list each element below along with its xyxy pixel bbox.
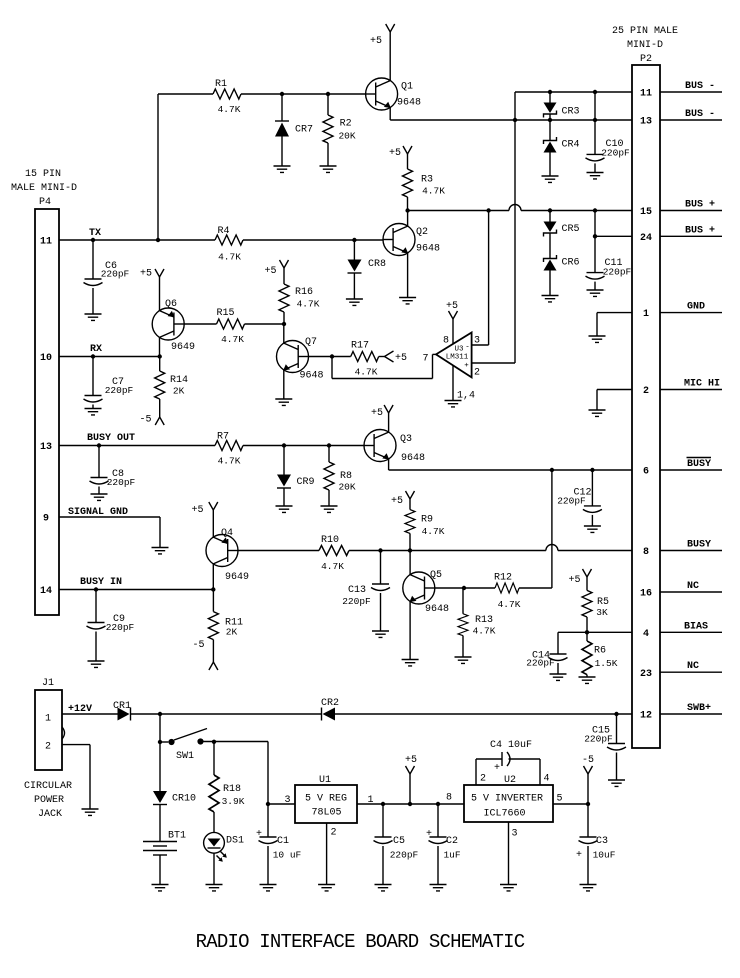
ground (Q2) (399, 298, 416, 304)
resistor R10 (319, 535, 349, 572)
svg-text:R15: R15 (216, 308, 234, 319)
ground (CR7) (274, 166, 291, 172)
ground (Q5) (402, 660, 419, 666)
svg-text:4: 4 (643, 629, 649, 640)
svg-text:4.7K: 4.7K (297, 299, 320, 310)
svg-text:R1: R1 (215, 79, 227, 90)
inverter U2 ICL7660 (446, 774, 563, 840)
svg-text:P2: P2 (640, 54, 652, 65)
ground (C3) (580, 885, 597, 891)
capacitor C12 (557, 470, 602, 526)
capacitor C7 (84, 357, 134, 409)
svg-text:+5: +5 (391, 496, 403, 507)
transistor Q1 9648 (366, 78, 421, 110)
wire Q5 emitter to ground (409, 601, 411, 659)
capacitor C10 (586, 92, 631, 173)
svg-text:CR8: CR8 (368, 259, 386, 270)
op-amp U3 LM311 (422, 333, 480, 402)
J1 pin2 wire (62, 744, 90, 746)
svg-text:3: 3 (511, 829, 517, 840)
svg-text:RX: RX (90, 344, 102, 355)
svg-text:9648: 9648 (397, 98, 421, 109)
capacitor C14 (526, 632, 567, 674)
svg-text:ICL7660: ICL7660 (483, 809, 525, 820)
ground (C13) (372, 631, 389, 637)
svg-text:R9: R9 (421, 515, 433, 526)
capacitor C15 (584, 714, 626, 780)
svg-text:1: 1 (45, 714, 51, 725)
power +5 (R17 right chevron) (385, 351, 408, 364)
svg-text:R4: R4 (217, 226, 229, 237)
svg-text:LM311: LM311 (446, 354, 469, 362)
ground (C12) (584, 526, 601, 532)
svg-text:-5: -5 (582, 755, 594, 766)
resistor R13 (458, 588, 496, 657)
svg-text:GND: GND (687, 302, 705, 313)
svg-text:C1: C1 (277, 836, 289, 847)
svg-text:10 uF: 10 uF (273, 850, 302, 861)
wire pin24 row (595, 235, 632, 237)
svg-text:R18: R18 (223, 784, 241, 795)
svg-text:+5: +5 (191, 505, 203, 516)
power +5 (R16) (264, 260, 288, 284)
svg-text:C4 10uF: C4 10uF (490, 740, 532, 751)
diode CR10 (153, 742, 196, 805)
svg-text:8: 8 (443, 336, 449, 347)
svg-text:JACK: JACK (38, 809, 62, 820)
diode CR3 (544, 92, 580, 118)
connector P4 15-pin male mini-D (11, 169, 77, 615)
wire Q2 collector (407, 211, 409, 227)
svg-text:220pF: 220pF (603, 267, 632, 278)
connector J1 circular power jack (24, 678, 72, 820)
ground (R6) (579, 677, 596, 683)
wire CR2 to P2 pin12 (335, 713, 632, 715)
diode CR1 (113, 701, 131, 721)
ground (U1 pin2) (318, 885, 335, 891)
transistor Q2 9648 (383, 224, 440, 256)
wire BUSY OUT row (59, 445, 215, 447)
resistor R6 (582, 632, 618, 677)
wire Q6 collector to RX node (159, 337, 161, 356)
diode CR4 (544, 114, 580, 176)
power +5 (R3) (389, 146, 412, 169)
svg-text:+5: +5 (395, 353, 407, 364)
capacitor C4 (476, 740, 540, 785)
svg-text:Q4: Q4 (221, 528, 233, 539)
svg-text:POWER: POWER (34, 795, 64, 806)
svg-text:4.7K: 4.7K (422, 526, 445, 537)
node R2 tap (326, 92, 330, 96)
node CR7 tap (280, 92, 284, 96)
wire U3 output to Q7 base (331, 357, 333, 379)
ground (BT1) (152, 885, 169, 891)
svg-text:+5: +5 (264, 266, 276, 277)
wire R10 to P2 pin8 with hop (349, 550, 546, 552)
svg-text:R10: R10 (321, 535, 339, 546)
svg-text:9649: 9649 (225, 572, 249, 583)
svg-text:3K: 3K (596, 607, 608, 618)
svg-text:4.7K: 4.7K (221, 334, 244, 345)
ground (C6) (85, 314, 102, 320)
svg-text:78L05: 78L05 (311, 808, 341, 819)
ground (C14) (550, 674, 567, 680)
svg-text:MINI-D: MINI-D (627, 40, 663, 51)
svg-text:5 V INVERTER: 5 V INVERTER (471, 794, 543, 805)
transistor Q4 9649 (206, 528, 249, 583)
svg-text:R17: R17 (351, 341, 369, 352)
ground (R2) (320, 166, 337, 172)
wire U2 pin5 (553, 803, 588, 805)
svg-text:15 PIN: 15 PIN (25, 169, 61, 180)
capacitor C1 (256, 802, 302, 885)
svg-text:BUS -: BUS - (685, 81, 715, 92)
svg-text:+: + (576, 850, 582, 861)
diode CR9 (277, 446, 315, 507)
P2 pin 2 (643, 379, 722, 398)
resistor R2 (323, 94, 356, 166)
resistor R14 (155, 357, 188, 418)
ground (C5) (375, 885, 392, 891)
wire Q3 emitter to P2 pin6 (388, 459, 390, 470)
svg-text:BUS +: BUS + (685, 200, 715, 211)
wire U3 gnd pins 1,4 (452, 366, 454, 401)
power +5 (Q1) (370, 24, 395, 81)
svg-text:10uF: 10uF (593, 850, 616, 861)
wire TX-to-R1 left rail (157, 94, 159, 240)
resistor R3 (403, 169, 446, 211)
svg-text:P4: P4 (39, 197, 51, 208)
svg-text:BUS -: BUS - (685, 109, 715, 120)
diode CR6 (544, 233, 580, 296)
capacitor C13 (342, 551, 390, 632)
svg-text:CR4: CR4 (561, 140, 579, 151)
wire Q5 collector (409, 551, 411, 575)
P2 pin 8 (643, 540, 722, 559)
power -5 (U2 out) (582, 755, 594, 804)
svg-text:4: 4 (543, 774, 549, 785)
svg-text:Q5: Q5 (430, 570, 442, 581)
transistor Q5 9648 (403, 570, 449, 615)
ground (DS1) (206, 885, 223, 891)
svg-text:CIRCULAR: CIRCULAR (24, 781, 72, 792)
svg-text:SW1: SW1 (176, 751, 194, 762)
svg-text:CR9: CR9 (296, 477, 314, 488)
svg-text:9649: 9649 (171, 342, 195, 353)
svg-text:4.7K: 4.7K (355, 367, 378, 378)
svg-text:4.7K: 4.7K (473, 626, 496, 637)
wire U3 pin3 to BUS+ (472, 344, 489, 346)
power +5 (U1 out) (405, 755, 417, 804)
node Q7 base (330, 354, 334, 358)
wire R12 to BUSY-bar vertical (519, 587, 552, 589)
regulator U1 78L05 (284, 775, 373, 839)
capacitor C3 (576, 804, 616, 885)
svg-text:+5: +5 (370, 36, 382, 47)
diode CR2 (321, 698, 339, 721)
wire U3 pin2 (472, 362, 515, 364)
svg-text:16: 16 (640, 589, 652, 600)
P2 pin 12 (640, 703, 722, 722)
svg-text:7: 7 (422, 354, 428, 365)
wire Q5 base row (435, 587, 495, 589)
svg-text:220pF: 220pF (526, 658, 555, 669)
resistor R16 (279, 284, 320, 324)
svg-text:+5: +5 (140, 269, 152, 280)
svg-text:6: 6 (643, 467, 649, 478)
svg-text:R8: R8 (340, 471, 352, 482)
wire CR1 to CR2 (131, 713, 322, 715)
svg-text:+: + (256, 829, 262, 840)
svg-text:24: 24 (640, 233, 652, 244)
svg-text:2K: 2K (173, 386, 185, 397)
resistor R9 (405, 510, 445, 551)
node main vertical at pin13 row (513, 118, 517, 122)
svg-text:Q2: Q2 (416, 227, 428, 238)
capacitor C9 (87, 590, 135, 662)
ground (CR3/CR4) (542, 176, 559, 182)
svg-text:CR5: CR5 (561, 224, 579, 235)
svg-text:8: 8 (643, 547, 649, 558)
svg-text:1uF: 1uF (443, 850, 460, 861)
svg-text:DS1: DS1 (226, 836, 244, 847)
wire Q7 collector (283, 324, 285, 343)
capacitor C6 (84, 240, 130, 314)
P2 pin 4 (643, 621, 722, 640)
svg-text:U3: U3 (454, 346, 464, 354)
svg-text:13: 13 (640, 117, 652, 128)
svg-text:220pF: 220pF (105, 385, 134, 396)
capacitor C2 (426, 804, 461, 885)
LED DS1 (204, 832, 244, 884)
svg-text:+: + (464, 362, 469, 370)
svg-text:220pF: 220pF (601, 147, 630, 158)
svg-text:NC: NC (687, 581, 699, 592)
svg-text:2: 2 (45, 742, 51, 753)
svg-text:R6: R6 (594, 646, 606, 657)
ground (C15) (608, 780, 625, 786)
svg-text:+: + (494, 763, 500, 774)
svg-text:BUSY: BUSY (687, 540, 711, 551)
svg-text:1: 1 (643, 309, 649, 320)
wire BUS+ row with hop (408, 210, 509, 212)
P2 pin 1 (643, 302, 722, 320)
svg-text:+5: +5 (389, 148, 401, 159)
svg-text:13: 13 (40, 442, 52, 453)
resistor R8 (324, 446, 356, 507)
diode CR7 (275, 94, 313, 166)
resistor R12 (494, 573, 521, 611)
wire U2 pin3 to ground (508, 822, 510, 885)
wire U1 pin2 to ground (326, 823, 328, 885)
svg-text:+5: +5 (405, 755, 417, 766)
svg-text:TX: TX (89, 228, 101, 239)
svg-text:9648: 9648 (416, 244, 440, 255)
transistor Q6 9649 (152, 299, 195, 353)
svg-text:Q7: Q7 (305, 337, 317, 348)
svg-text:J1: J1 (42, 678, 54, 689)
transistor Q7 9648 (277, 337, 324, 382)
power -5 (R11) (192, 640, 217, 670)
svg-text:-5: -5 (192, 640, 204, 651)
svg-text:2: 2 (643, 386, 649, 397)
svg-text:5 V REG: 5 V REG (305, 794, 347, 805)
svg-text:R2: R2 (340, 119, 352, 130)
svg-text:220pF: 220pF (106, 622, 135, 633)
diode CR5 (544, 211, 580, 237)
svg-text:+5: +5 (568, 575, 580, 586)
svg-text:Q3: Q3 (400, 434, 412, 445)
switch SW1 (158, 714, 207, 762)
svg-text:220pF: 220pF (557, 496, 586, 507)
connector P2 25-pin male mini-D (612, 26, 678, 748)
transistor Q3 9648 (364, 430, 425, 465)
ground (CR9) (276, 506, 293, 512)
resistor R15 (184, 308, 284, 345)
power +5 (R5) (568, 569, 591, 590)
svg-text:25 PIN MALE: 25 PIN MALE (612, 26, 678, 37)
power +5 (Q4) (191, 502, 217, 537)
ground (Q7) (275, 399, 292, 405)
svg-text:R16: R16 (295, 287, 313, 298)
svg-text:U1: U1 (319, 775, 331, 786)
svg-text:220pF: 220pF (342, 596, 371, 607)
wire TX row (59, 239, 215, 241)
resistor R4 (215, 226, 243, 263)
P2 pin 6 BUSY-bar (643, 458, 722, 478)
svg-text:9648: 9648 (299, 371, 323, 382)
svg-text:20K: 20K (338, 482, 355, 493)
svg-text:23: 23 (640, 669, 652, 680)
svg-text:220pF: 220pF (390, 850, 419, 861)
svg-text:2K: 2K (226, 627, 238, 638)
svg-text:C2: C2 (446, 836, 458, 847)
battery BT1 (143, 805, 186, 885)
svg-text:BUS +: BUS + (685, 225, 715, 236)
resistor R11 (208, 590, 243, 663)
wire +12V row J1 to CR1 (62, 713, 118, 715)
ground (signal gnd) (152, 548, 169, 554)
power +5 (Q6) (140, 269, 164, 311)
svg-text:+: + (426, 829, 432, 840)
svg-text:BUSY IN: BUSY IN (80, 577, 122, 588)
svg-text:Q6: Q6 (165, 299, 177, 310)
resistor R18 (209, 742, 245, 833)
svg-text:CR3: CR3 (561, 107, 579, 118)
svg-text:20K: 20K (338, 131, 355, 142)
ground (C11) (587, 290, 604, 296)
svg-text:MIC HI: MIC HI (684, 379, 720, 390)
wire R1-to-Q1 base (241, 93, 366, 95)
wire BIAS row (558, 631, 632, 633)
ground (CR5/CR6) (542, 296, 559, 302)
svg-text:CR2: CR2 (321, 698, 339, 709)
svg-text:+5: +5 (446, 301, 458, 312)
P2 pin 23 (640, 661, 722, 680)
svg-text:C13: C13 (348, 585, 366, 596)
svg-text:220pF: 220pF (584, 734, 613, 745)
svg-text:BT1: BT1 (168, 831, 186, 842)
svg-text:R13: R13 (475, 615, 493, 626)
svg-text:CR1: CR1 (113, 701, 131, 712)
node R15/R16/Q7 (282, 322, 286, 326)
svg-text:Q1: Q1 (401, 82, 413, 93)
svg-text:11: 11 (640, 89, 652, 100)
svg-text:-5: -5 (139, 415, 151, 426)
svg-text:RADIO INTERFACE BOARD SCHEMATI: RADIO INTERFACE BOARD SCHEMATIC (196, 931, 525, 953)
ground (C1) (260, 885, 277, 891)
capacitor C11 (586, 211, 632, 291)
P2 pin 11 (640, 81, 722, 100)
svg-text:2: 2 (330, 828, 336, 839)
resistor R5 (582, 590, 609, 632)
svg-text:2: 2 (474, 368, 480, 379)
svg-text:14: 14 (40, 586, 52, 597)
svg-text:4.7K: 4.7K (422, 186, 445, 197)
ground (C10) (587, 173, 604, 179)
wire R4 to Q2 base (243, 239, 383, 241)
power +5 (Q3) (371, 405, 393, 432)
svg-text:C3: C3 (596, 836, 608, 847)
wire Q1 emitter to P2 pin13 (389, 107, 391, 120)
wire P2 pin2 to ground (597, 389, 632, 391)
svg-text:220pF: 220pF (107, 477, 136, 488)
ground (U2 pin3) (500, 885, 517, 891)
svg-text:1.5K: 1.5K (595, 658, 618, 669)
wire main vertical to U3 pin2 (514, 120, 516, 363)
svg-text:U2: U2 (504, 775, 516, 786)
ground (CR8) (346, 299, 363, 305)
P2 pin 16 (640, 581, 722, 600)
wire Q7 emitter to ground (283, 370, 285, 399)
P2 pin 13 (640, 109, 722, 128)
svg-text:C5: C5 (393, 836, 405, 847)
svg-text:8: 8 (446, 793, 452, 804)
svg-text:CR7: CR7 (295, 125, 313, 136)
svg-text:4.7K: 4.7K (321, 561, 344, 572)
ground (R13) (455, 657, 472, 663)
wire BUSY IN row (59, 589, 213, 591)
svg-text:SWB+: SWB+ (687, 703, 711, 714)
diode CR8 (348, 240, 387, 299)
svg-text:R3: R3 (421, 175, 433, 186)
svg-text:4.7K: 4.7K (498, 599, 521, 610)
svg-text:10: 10 (40, 353, 52, 364)
ground (C9) (88, 661, 105, 667)
svg-text:-: - (465, 344, 470, 352)
ground (C2) (430, 885, 447, 891)
svg-text:R7: R7 (217, 432, 229, 443)
power +5 (U3 pin8) (446, 301, 458, 344)
svg-text:CR6: CR6 (561, 258, 579, 269)
resistor R1 (213, 79, 241, 115)
wire Q2 emitter to ground (407, 253, 409, 298)
wire U1 pin1 to U2 pin8 (357, 803, 464, 805)
svg-text:NC: NC (687, 661, 699, 672)
svg-text:R12: R12 (494, 573, 512, 584)
ground (pin1) (589, 336, 606, 342)
svg-text:2: 2 (480, 774, 486, 785)
ground (U3) (445, 401, 462, 407)
svg-text:9648: 9648 (401, 453, 425, 464)
wire P2 pin1 to ground (597, 312, 632, 314)
resistor R7 (215, 432, 243, 467)
wire SIGNAL GND row (59, 516, 160, 518)
svg-text:9: 9 (43, 514, 49, 525)
svg-text:4.7K: 4.7K (218, 456, 241, 467)
wire pin11 row (515, 91, 632, 93)
svg-text:+5: +5 (371, 408, 383, 419)
